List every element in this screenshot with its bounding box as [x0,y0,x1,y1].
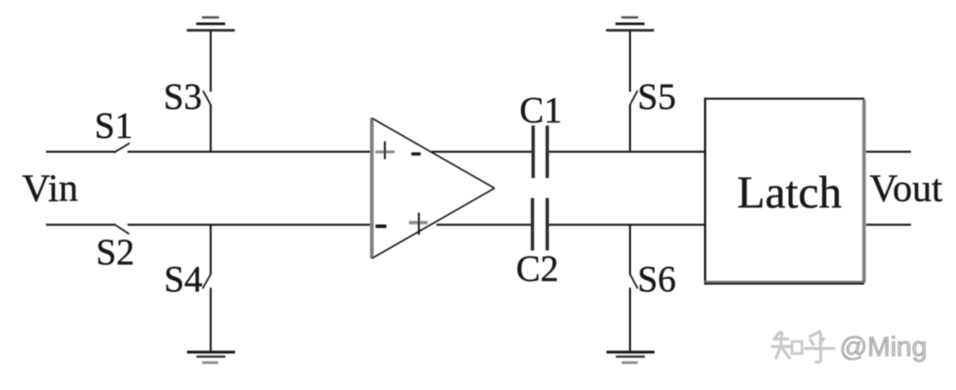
svg-text:S4: S4 [164,259,203,300]
svg-text:S5: S5 [638,76,677,117]
svg-text:Vout: Vout [870,167,943,210]
svg-text:@Ming: @Ming [840,331,928,362]
svg-text:C1: C1 [520,90,563,131]
svg-text:S3: S3 [164,76,203,117]
svg-text:C2: C2 [516,248,559,289]
svg-text:S1: S1 [95,105,134,146]
svg-text:S6: S6 [638,259,677,300]
svg-text:S2: S2 [96,232,135,273]
svg-text:Latch: Latch [737,167,842,218]
svg-text:Vin: Vin [22,167,78,210]
